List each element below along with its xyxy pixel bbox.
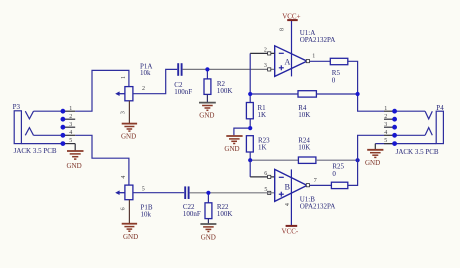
pin 5 of P4 — [384, 138, 395, 144]
ground at P1B pin6 — [128, 200, 130, 224]
svg-text:10k: 10k — [140, 69, 151, 77]
plus mark — [279, 67, 284, 69]
svg-text:1: 1 — [69, 106, 72, 112]
junction node R23/R24/pin6 — [248, 158, 252, 162]
wire output op-amp A pin1 — [307, 60, 330, 62]
potentiometer P1B — [119, 185, 133, 200]
svg-text:2: 2 — [384, 114, 387, 120]
resistor R22 — [207, 193, 209, 203]
wire P3 pin4 down to P1B — [75, 135, 129, 185]
plus mark — [279, 193, 284, 195]
pin 5 of P3 — [63, 138, 75, 144]
wire P4 pin1 to tip — [395, 110, 426, 112]
svg-text:0: 0 — [332, 77, 336, 85]
pin 4 of P4 — [384, 130, 395, 136]
wire P3 sleeve to pin5 — [21, 143, 63, 145]
pin 1 of P4 — [384, 106, 395, 112]
ground at P4 pin5 — [367, 144, 383, 158]
connector P4 jack symbol — [425, 111, 443, 143]
pin 3 of P3 — [63, 122, 75, 128]
resistor R4 — [250, 93, 298, 95]
svg-text:1: 1 — [312, 54, 315, 60]
resistor R1 — [249, 94, 251, 103]
wire R5 to P4 pin1 — [348, 61, 384, 111]
svg-text:1: 1 — [384, 106, 387, 112]
pin 2 of P4 — [384, 114, 395, 120]
svg-text:7: 7 — [314, 178, 317, 184]
op-amp U1:B — [275, 169, 307, 226]
connector P3 jack symbol — [14, 111, 33, 144]
svg-text:GND: GND — [121, 133, 136, 141]
svg-text:JACK 3.5 PCB: JACK 3.5 PCB — [396, 148, 439, 156]
potentiometer P1A — [119, 87, 133, 101]
svg-text:5: 5 — [384, 138, 387, 144]
svg-text:2: 2 — [69, 114, 72, 120]
wire to op-amp B pin6 — [249, 160, 251, 177]
svg-text:3: 3 — [264, 63, 267, 69]
svg-text:5: 5 — [264, 187, 267, 193]
capacitor C2 — [178, 63, 181, 76]
svg-text:10K: 10K — [298, 111, 310, 119]
ground at P3 pin5 — [67, 144, 84, 160]
svg-text:1: 1 — [121, 76, 127, 79]
minus mark — [279, 52, 284, 54]
svg-text:8: 8 — [280, 28, 286, 31]
wire P4 pin5 to sleeve — [395, 143, 437, 145]
pin 4 of P3 — [63, 130, 75, 136]
wire P4 pin5 to ground — [375, 143, 394, 145]
junction dots P3 pins — [61, 109, 66, 146]
wire C22 to op-amp B pin5 (gray net) — [190, 192, 275, 194]
ground between R1 and R23 — [234, 128, 250, 135]
wire R25 to P4 pin4 — [348, 135, 384, 185]
svg-text:GND: GND — [365, 159, 380, 167]
op-amp U1:A — [275, 20, 307, 76]
pin 2 of P3 — [63, 114, 75, 120]
wire P4 pin4 to ring — [395, 134, 426, 136]
wire P1B wiper to C22 — [133, 192, 184, 194]
pin 1 of P3 — [63, 106, 75, 112]
svg-text:5: 5 — [142, 187, 145, 193]
resistor R5 — [330, 58, 348, 64]
wire C2 to op-amp A pin3 (gray net) — [183, 68, 275, 70]
svg-text:1K: 1K — [258, 144, 267, 152]
svg-text:4: 4 — [121, 176, 127, 179]
junction node C22/R22 — [206, 191, 210, 195]
junction node C2/R2 — [205, 67, 209, 71]
ground at P1A pin3 — [128, 101, 130, 123]
svg-text:4: 4 — [69, 130, 72, 136]
power pin 4 line — [290, 169, 292, 226]
svg-text:4: 4 — [384, 130, 387, 136]
svg-text:100K: 100K — [217, 210, 233, 218]
svg-text:1K: 1K — [258, 111, 267, 119]
ground at R22 — [207, 219, 209, 224]
svg-text:A: A — [285, 57, 291, 66]
svg-text:3: 3 — [120, 111, 126, 114]
svg-text:JACK 3.5 PCB: JACK 3.5 PCB — [14, 147, 57, 155]
svg-text:OPA2132PA: OPA2132PA — [300, 36, 336, 44]
svg-text:OPA2132PA: OPA2132PA — [300, 202, 336, 210]
wire P3 pin1 up to P1A — [75, 70, 129, 111]
wire output op-amp B pin7 — [307, 184, 331, 186]
svg-text:GND: GND — [199, 112, 214, 120]
VCC- power symbol — [286, 225, 298, 227]
capacitor C22 — [185, 186, 188, 199]
minus mark — [279, 176, 284, 178]
svg-text:6: 6 — [120, 207, 126, 210]
junction node R4/R5 output — [356, 92, 360, 96]
svg-text:0: 0 — [332, 170, 336, 178]
pin square op-amp A pin3 — [268, 68, 271, 71]
wire op-amp A pin2 — [249, 53, 251, 94]
VCC+ power symbol — [287, 19, 298, 21]
svg-text:4: 4 — [285, 203, 291, 206]
wire P1A wiper to C2 — [133, 69, 177, 93]
svg-text:B: B — [285, 182, 290, 191]
svg-text:P4: P4 — [436, 104, 444, 112]
svg-text:3: 3 — [69, 122, 72, 128]
wire P3 tip to pin1 — [34, 110, 63, 112]
resistor R25 — [331, 182, 347, 188]
svg-text:GND: GND — [224, 145, 239, 153]
junction dots P4 pins — [392, 109, 397, 146]
junction node R1/R23/GND — [248, 126, 252, 130]
svg-text:P3: P3 — [13, 103, 21, 111]
svg-text:GND: GND — [201, 234, 216, 242]
svg-text:3: 3 — [384, 122, 387, 128]
svg-text:6: 6 — [264, 171, 267, 177]
svg-text:VCC+: VCC+ — [282, 12, 300, 20]
svg-text:2: 2 — [142, 86, 145, 92]
svg-text:10K: 10K — [298, 144, 310, 152]
junction node R24/R25 output — [356, 158, 360, 162]
resistor R24 (gray feedback row) — [250, 159, 298, 161]
svg-text:100nF: 100nF — [183, 210, 201, 218]
svg-text:5: 5 — [69, 138, 72, 144]
ground at R2 — [206, 94, 208, 102]
pin 3 of P4 — [384, 122, 395, 128]
resistor R23 — [246, 136, 253, 152]
svg-text:100nF: 100nF — [174, 88, 192, 96]
wire P3 ring to pin4 — [34, 134, 63, 136]
svg-text:2: 2 — [264, 47, 267, 53]
svg-text:10k: 10k — [141, 211, 152, 219]
junction node pin2/R1/R4 — [248, 92, 252, 96]
svg-text:GND: GND — [123, 233, 138, 241]
svg-text:VCC-: VCC- — [282, 227, 299, 235]
resistor R2 — [206, 69, 208, 79]
svg-text:GND: GND — [67, 162, 82, 170]
svg-text:100K: 100K — [217, 87, 233, 95]
pin square op-amp A pin2 — [268, 52, 271, 55]
power pin 8 line — [291, 20, 293, 76]
